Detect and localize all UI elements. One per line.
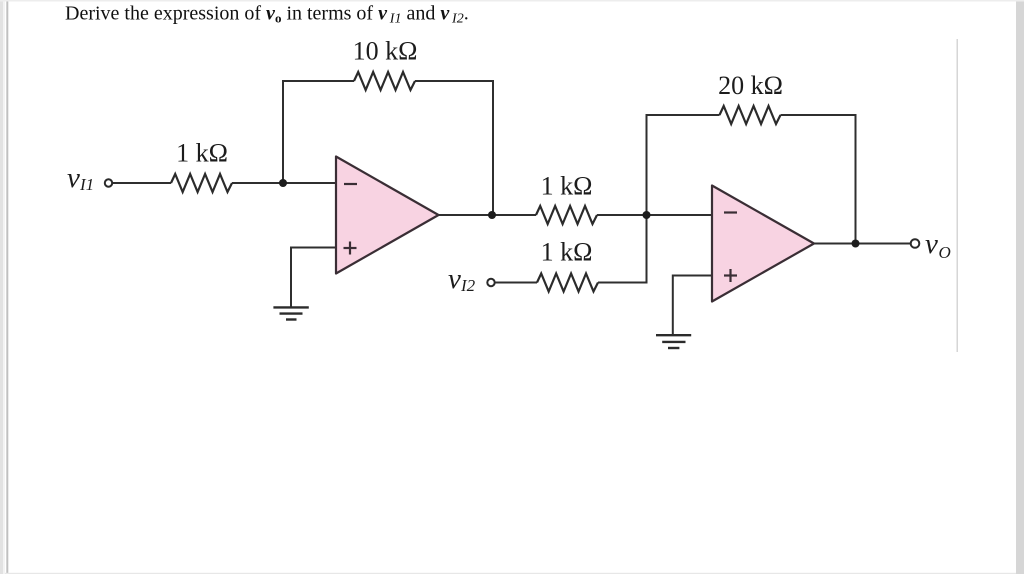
- svg-text:Derive the expression of vo in: Derive the expression of vo in terms of …: [65, 3, 469, 27]
- svg-text:20 kΩ: 20 kΩ: [718, 71, 783, 100]
- svg-text:I2: I2: [460, 276, 476, 295]
- svg-text:O: O: [939, 243, 951, 262]
- svg-text:10 kΩ: 10 kΩ: [353, 37, 418, 66]
- svg-text:v: v: [448, 263, 461, 295]
- svg-text:1 kΩ: 1 kΩ: [541, 237, 593, 266]
- svg-text:1 kΩ: 1 kΩ: [176, 139, 228, 168]
- svg-text:v: v: [67, 162, 80, 194]
- svg-text:1 kΩ: 1 kΩ: [541, 172, 593, 201]
- svg-text:v: v: [925, 228, 938, 260]
- svg-text:I1: I1: [79, 175, 94, 194]
